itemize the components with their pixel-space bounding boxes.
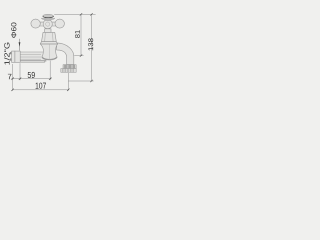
leader arrow phi60: [19, 39, 21, 51]
ext line flange right: [19, 63, 21, 80]
tick 7 left: [11, 78, 13, 80]
label phi60: [11, 23, 16, 38]
top extension line: [54, 13, 95, 15]
ext line 138 bottom: [68, 80, 93, 82]
text labels: [4, 23, 93, 89]
ext line body center: [49, 61, 51, 81]
tick 138 bottom: [90, 80, 92, 82]
right knob: [55, 19, 64, 28]
body centerline: [49, 45, 51, 60]
pipe lower band: [13, 61, 45, 63]
background: [0, 0, 98, 114]
dim line 81: [80, 14, 82, 55]
dimension graphics: [11, 14, 95, 90]
label 138: [88, 38, 93, 50]
body dome: [42, 57, 57, 60]
tick 81 top: [80, 13, 82, 15]
tick 7/59 mid: [19, 78, 21, 80]
bonnet nut: [42, 32, 57, 41]
bonnet skirt: [40, 42, 57, 44]
wall flange screw nubs: [10, 52, 11, 54]
ext line 81 bottom: [74, 55, 83, 57]
label 59: [28, 72, 35, 78]
cap brim: [41, 18, 54, 20]
nozzle upper band: [63, 65, 76, 69]
hub inner: [46, 22, 50, 26]
tick 59 right: [49, 78, 51, 80]
label 7: [8, 74, 12, 79]
cap neck: [45, 19, 51, 21]
pipe thread lines: [20, 55, 41, 60]
nozzle lower ribs: [62, 69, 73, 73]
bonnet facets: [45, 32, 53, 41]
label 1/2 inch G: [4, 43, 9, 65]
pipe lower band hook: [45, 61, 47, 62]
inlet pipe: [20, 52, 46, 61]
ext line flange left: [12, 64, 14, 91]
handle arms bar: [35, 22, 62, 26]
stem: [45, 29, 51, 33]
tick 107 right: [67, 89, 69, 91]
tick 107 left: [11, 89, 13, 91]
nozzle lower band: [61, 69, 76, 73]
label 107: [36, 83, 46, 89]
cap top surface: [43, 14, 54, 17]
tick marks: [11, 13, 92, 91]
wall flange plate: [12, 51, 15, 62]
left knob: [31, 19, 40, 28]
hub outer: [43, 20, 52, 29]
body waist: [40, 44, 57, 60]
tick 81 bottom: [80, 54, 82, 56]
dim line 107: [13, 89, 69, 91]
nozzle knurling: [64, 65, 74, 69]
faucet body group: [10, 14, 76, 72]
dim line 138: [91, 14, 93, 81]
tick 138 top: [90, 13, 92, 15]
ext line below nozzle: [67, 73, 69, 91]
top cap dark band: [43, 16, 54, 18]
flange collar: [15, 51, 20, 62]
dim line 7-59: [11, 78, 51, 80]
label 81: [75, 30, 80, 38]
spout: [57, 43, 74, 65]
